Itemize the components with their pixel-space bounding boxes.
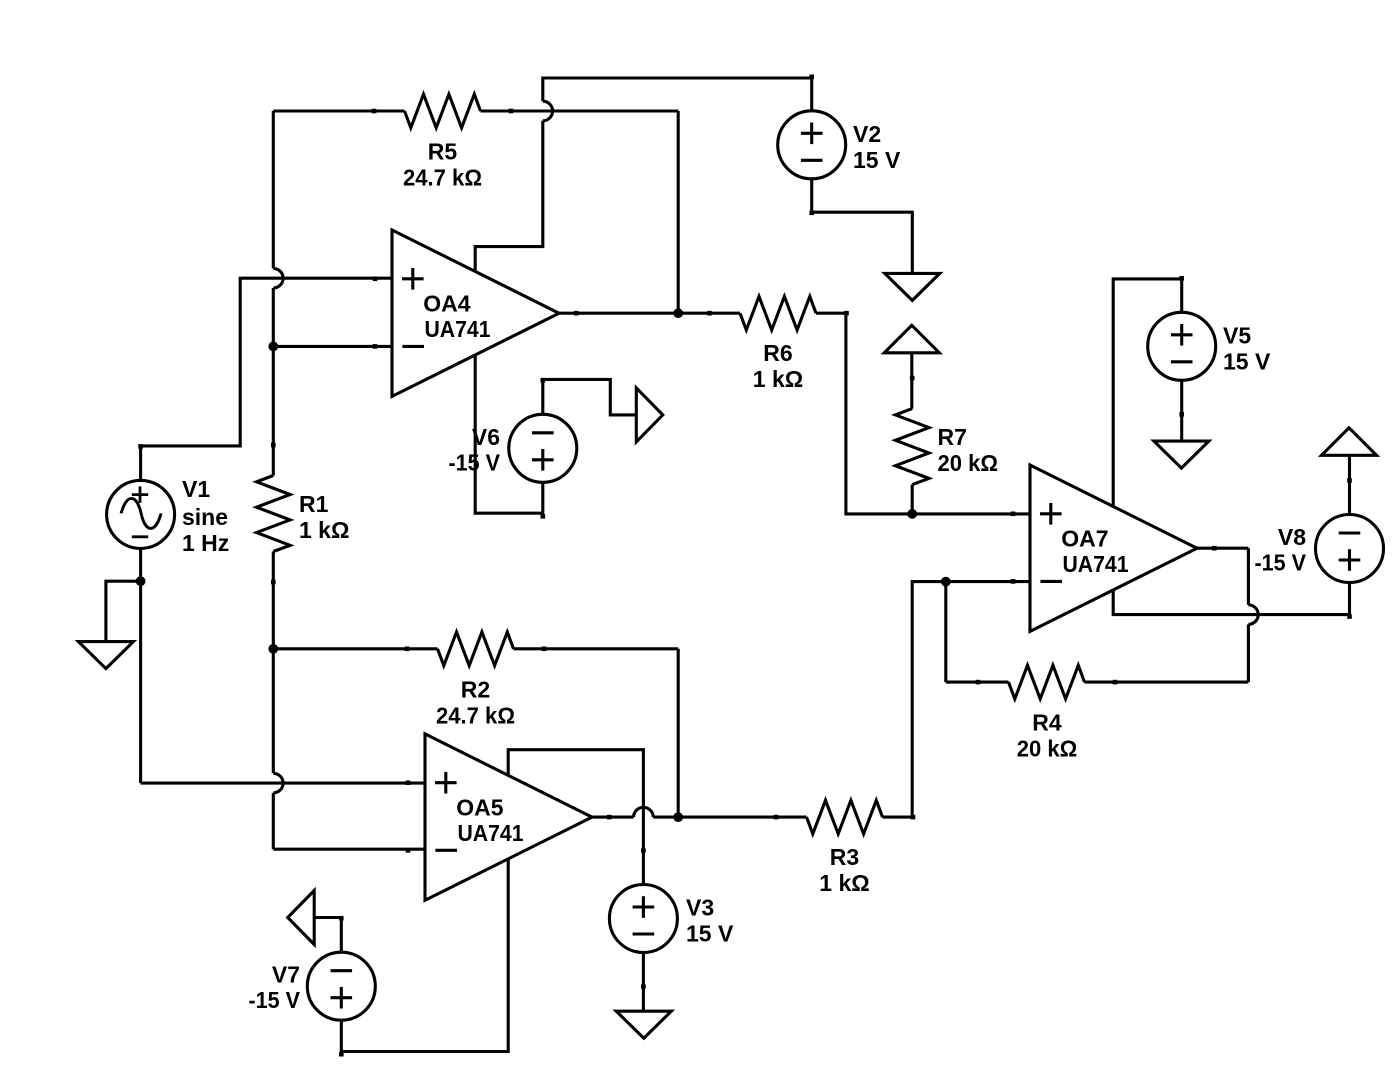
svg-text:OA5: OA5 <box>456 794 504 820</box>
svg-text:R7: R7 <box>938 424 967 450</box>
svg-text:-15 V: -15 V <box>1255 550 1307 576</box>
svg-text:-15 V: -15 V <box>449 449 501 475</box>
svg-text:V8: V8 <box>1278 524 1306 550</box>
svg-text:R2: R2 <box>461 676 490 702</box>
svg-text:20 kΩ: 20 kΩ <box>1017 736 1078 762</box>
svg-text:UA741: UA741 <box>425 316 491 342</box>
svg-text:15 V: 15 V <box>686 921 734 947</box>
svg-text:24.7 kΩ: 24.7 kΩ <box>436 702 515 728</box>
svg-text:20 kΩ: 20 kΩ <box>938 450 999 476</box>
svg-text:V1: V1 <box>182 476 210 502</box>
svg-text:V6: V6 <box>472 424 500 450</box>
svg-text:UA741: UA741 <box>458 820 524 846</box>
svg-text:R5: R5 <box>428 139 458 165</box>
svg-text:R3: R3 <box>830 844 859 870</box>
svg-text:V5: V5 <box>1223 322 1251 348</box>
svg-text:V2: V2 <box>853 121 881 147</box>
svg-text:R4: R4 <box>1032 710 1062 736</box>
svg-text:UA741: UA741 <box>1063 551 1129 577</box>
svg-text:R1: R1 <box>299 491 329 517</box>
svg-text:15 V: 15 V <box>853 147 901 173</box>
svg-text:V7: V7 <box>272 962 300 988</box>
svg-text:OA4: OA4 <box>423 290 471 316</box>
svg-text:sine: sine <box>182 504 228 530</box>
svg-text:15 V: 15 V <box>1223 348 1271 374</box>
svg-text:1 Hz: 1 Hz <box>182 530 229 556</box>
svg-text:24.7 kΩ: 24.7 kΩ <box>403 165 482 191</box>
svg-text:R6: R6 <box>763 340 792 366</box>
svg-text:1 kΩ: 1 kΩ <box>753 366 803 392</box>
svg-text:V3: V3 <box>686 895 714 921</box>
svg-text:1 kΩ: 1 kΩ <box>299 517 349 543</box>
svg-text:-15 V: -15 V <box>249 987 301 1013</box>
svg-text:OA7: OA7 <box>1061 525 1108 551</box>
svg-text:1 kΩ: 1 kΩ <box>819 870 869 896</box>
